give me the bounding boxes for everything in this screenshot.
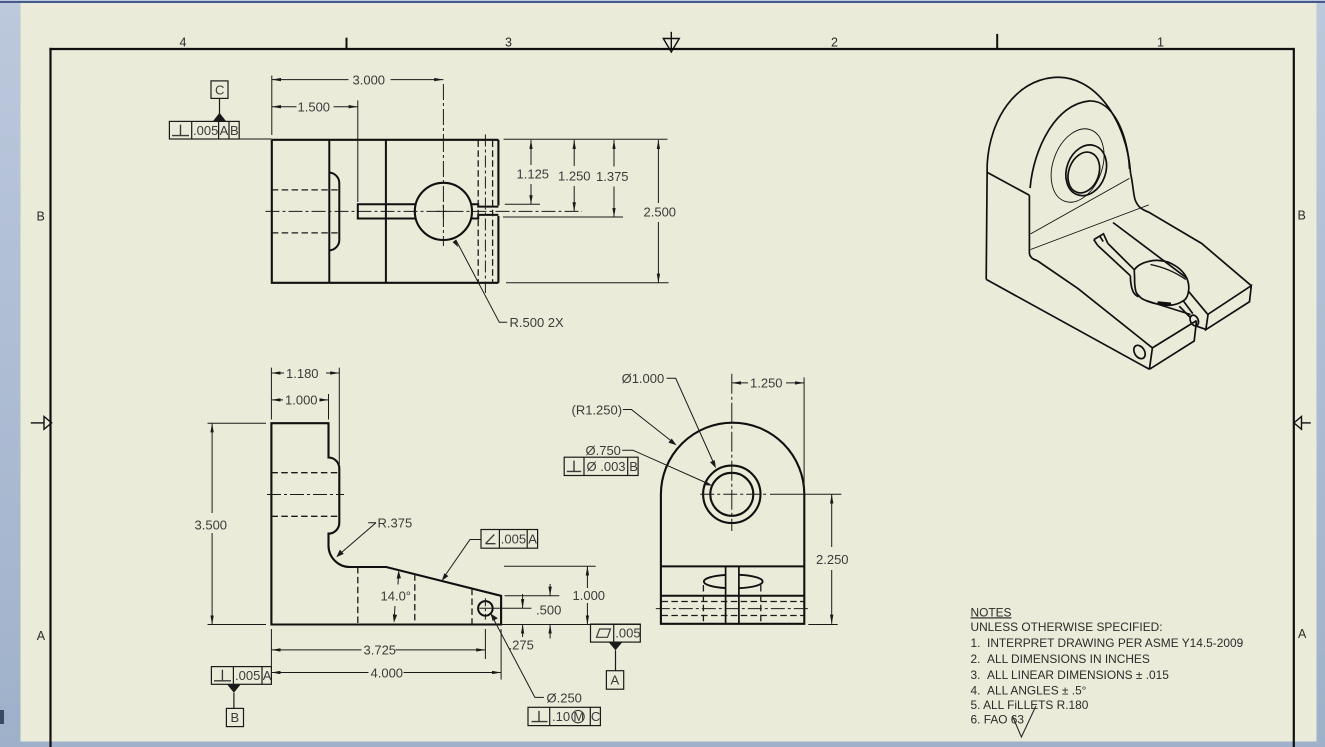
- svg-text:2.500: 2.500: [644, 205, 677, 220]
- zone tick between 2 and 1: [996, 34, 998, 48]
- leader dia 1.000: [667, 378, 716, 468]
- svg-text:B: B: [230, 123, 239, 138]
- svg-text:3.500: 3.500: [195, 518, 228, 533]
- svg-text:A: A: [611, 673, 620, 688]
- svg-text:B: B: [629, 459, 638, 474]
- left edge small dark mark: [0, 710, 4, 724]
- svg-text:3.725: 3.725: [364, 643, 397, 658]
- iso small hole ellipse: [1131, 343, 1147, 361]
- iso bore inner ellipse: [1063, 148, 1106, 198]
- center lines: [700, 493, 766, 495]
- top center fold mark: [663, 32, 679, 52]
- pocket circle center cross: [437, 205, 451, 219]
- svg-text:Ø1.000: Ø1.000: [622, 371, 665, 386]
- iso front boss arc: [1030, 101, 1129, 188]
- svg-text:Ø .003: Ø .003: [587, 459, 626, 474]
- svg-text:3. ALL LINEAR DIMENSIONS ± .0: 3. ALL LINEAR DIMENSIONS ± .015: [971, 668, 1170, 682]
- front view hidden slot walls: [358, 567, 472, 624]
- dimension 1.125: [530, 140, 532, 204]
- svg-text:1.180: 1.180: [286, 366, 319, 381]
- leader dia .250: [491, 614, 544, 698]
- iso pocket blob: [1134, 260, 1189, 305]
- bore circle .750: [710, 473, 753, 516]
- dimension 3.725: [271, 629, 485, 667]
- dimension 1.250: [732, 377, 804, 489]
- small hole center line: [656, 608, 809, 610]
- svg-text:2.250: 2.250: [816, 552, 849, 567]
- svg-text:.005: .005: [193, 123, 218, 138]
- svg-text:R.500 2X: R.500 2X: [510, 315, 565, 330]
- FCF perpendicularity .10 M C: [528, 707, 600, 725]
- FCF flatness .005: [591, 624, 641, 642]
- dimension 1.000 (right): [586, 566, 588, 624]
- svg-text:.10: .10: [552, 709, 570, 724]
- iso front prong right face: [1149, 321, 1196, 370]
- datum A flag: [609, 642, 623, 650]
- FCF perpendicularity dia .003 B: [564, 457, 638, 475]
- svg-text:A: A: [528, 532, 537, 547]
- top view pocket vertical center line: [442, 84, 444, 246]
- top view horizontal center line: [266, 210, 583, 212]
- top view upright divider line: [328, 140, 330, 283]
- top view slot left section: [358, 204, 416, 218]
- front view hole center line: [267, 494, 344, 496]
- iso tangent line upper: [1031, 178, 1130, 234]
- top view pocket circle R.500: [415, 183, 472, 240]
- angularity leader: [442, 540, 481, 581]
- dimension 1.500: [272, 100, 358, 202]
- svg-text:4. ALL ANGLES ± .5°: 4. ALL ANGLES ± .5°: [971, 683, 1087, 697]
- iso pocket floor edge: [1158, 303, 1172, 304]
- iso prong gap lines: [1179, 301, 1193, 318]
- leader R.375: [336, 523, 376, 557]
- dimension 1.250: [573, 140, 575, 211]
- top view outline: [272, 140, 499, 283]
- leader dia .750: [622, 450, 712, 485]
- iso top-left slope edge: [987, 172, 1029, 195]
- iso notch to prong corner edge: [1196, 326, 1206, 329]
- iso pocket inner far-wall edge: [1151, 265, 1186, 280]
- boss circle 1.000: [703, 466, 760, 523]
- dimension 2.250: [770, 494, 841, 624]
- right side extension lines: [501, 566, 641, 624]
- left center arrow mark: [31, 417, 52, 430]
- side view outline: [661, 423, 804, 624]
- dimension 1.180: [271, 368, 339, 464]
- leader R.500 2X: [453, 240, 508, 322]
- svg-text:3: 3: [505, 36, 512, 50]
- hidden small hole lines: [662, 602, 804, 616]
- svg-text:M: M: [573, 709, 584, 724]
- svg-text:A: A: [220, 123, 229, 138]
- svg-text:4: 4: [180, 36, 187, 50]
- svg-text:1. INTERPRET DRAWING PER ASME: 1. INTERPRET DRAWING PER ASME Y14.5-2009: [971, 636, 1244, 650]
- iso back prong right face: [1206, 286, 1252, 330]
- iso upright front-left edge: [1029, 195, 1037, 260]
- angle dimension 14.0: [393, 570, 401, 623]
- svg-text:Ø.750: Ø.750: [586, 443, 621, 458]
- svg-text:C: C: [591, 709, 600, 724]
- svg-text:4.000: 4.000: [371, 665, 404, 680]
- svg-text:R.375: R.375: [378, 516, 413, 531]
- iso back arch arc: [987, 77, 1130, 173]
- surface finish symbol: [1013, 706, 1036, 737]
- small hole: [478, 601, 493, 616]
- top view boss profile with fillets: [329, 173, 339, 251]
- iso front prong slot-side edge: [1146, 301, 1191, 315]
- svg-text:3.000: 3.000: [353, 72, 386, 87]
- iso slot-to-prong edge: [1188, 291, 1208, 314]
- dimension 1.375: [613, 140, 615, 217]
- dimension 2.500: [657, 140, 659, 283]
- dimension 1.000 (upright): [271, 394, 328, 420]
- dimension 3.500: [208, 423, 267, 624]
- svg-text:Ø.250: Ø.250: [547, 690, 582, 705]
- svg-text:1.500: 1.500: [298, 100, 331, 115]
- svg-text:1.000: 1.000: [573, 588, 606, 603]
- right center arrow mark: [1294, 417, 1311, 430]
- dimension .275: [522, 594, 524, 637]
- svg-text:.005: .005: [615, 626, 640, 641]
- svg-text:NOTES: NOTES: [971, 605, 1012, 619]
- svg-text:1.000: 1.000: [285, 393, 318, 408]
- svg-text:.275: .275: [509, 638, 534, 653]
- svg-text:B: B: [231, 710, 240, 725]
- iso left edge: [986, 164, 987, 280]
- iso boss face thin ellipse: [1042, 121, 1114, 209]
- top view small hole center line: [484, 135, 486, 294]
- svg-text:1.250: 1.250: [558, 169, 591, 184]
- iso pocket outer wall lower arc: [1130, 276, 1138, 297]
- svg-text:(R1.250): (R1.250): [572, 402, 623, 417]
- svg-text:A: A: [1298, 627, 1307, 641]
- iso slot right wall top edge: [1113, 223, 1187, 278]
- iso slot right-end notch: [1188, 314, 1200, 327]
- svg-text:5. ALL FiLLETS R.180: 5. ALL FiLLETS R.180: [971, 698, 1089, 712]
- svg-text:.500: .500: [536, 603, 561, 618]
- svg-text:1.125: 1.125: [517, 167, 550, 182]
- zone tick between 4 and 3: [346, 38, 348, 49]
- front view outline: [271, 423, 501, 624]
- iso slot left wall band: [1098, 243, 1135, 275]
- perpendicularity symbol: [172, 125, 189, 136]
- iso slot closed end: [1094, 234, 1108, 245]
- datum C flag: [211, 81, 228, 115]
- front view hidden hole lines: [271, 473, 339, 517]
- leader (R1.250): [623, 410, 677, 446]
- top view hidden hole lines: [272, 190, 340, 233]
- iso tangent line lower: [1031, 205, 1149, 250]
- hidden pocket walls: [703, 585, 760, 624]
- iso bore outer ellipse: [1059, 139, 1113, 201]
- pocket ellipse: [704, 575, 763, 588]
- datum B flag: [227, 684, 241, 693]
- dimension 4.000: [271, 629, 501, 680]
- svg-text:A: A: [37, 629, 46, 643]
- iso base front-top edge: [1037, 261, 1152, 348]
- FCF attachment line to view: [239, 138, 272, 140]
- iso base bottom edge: [986, 279, 1149, 369]
- svg-text:1.375: 1.375: [596, 169, 629, 184]
- svg-text:UNLESS OTHERWISE SPECIFIED:: UNLESS OTHERWISE SPECIFIED:: [971, 620, 1163, 634]
- top view slot right section with jog: [471, 204, 498, 218]
- dimension 3.000: [272, 76, 444, 135]
- top view angled-face start edge: [385, 140, 387, 283]
- top dark blue line: [0, 1, 1325, 3]
- top view small hole hidden lines: [478, 141, 492, 283]
- svg-text:C: C: [215, 83, 224, 98]
- base top edge: [661, 565, 804, 567]
- right end step edge: [661, 595, 804, 597]
- svg-text:2: 2: [831, 35, 838, 49]
- svg-text:.005: .005: [235, 668, 260, 683]
- svg-text:14.0°: 14.0°: [381, 589, 412, 604]
- FCF perpendicularity .005 A (bottom left): [211, 667, 271, 685]
- svg-text:1: 1: [1157, 35, 1164, 49]
- svg-text:.005: .005: [501, 532, 526, 547]
- right side extension lines: [503, 139, 669, 283]
- svg-text:B: B: [1298, 209, 1306, 223]
- slot walls: [725, 566, 727, 623]
- svg-text:B: B: [37, 210, 45, 224]
- small hole center lines: [484, 598, 486, 619]
- svg-text:2. ALL DIMENSIONS IN INCHES: 2. ALL DIMENSIONS IN INCHES: [971, 652, 1150, 666]
- FCF perpendicularity .005 A B (top): [169, 121, 239, 139]
- dimension .500: [549, 584, 551, 639]
- iso upright right edge: [1131, 174, 1252, 286]
- svg-text:A: A: [263, 668, 272, 683]
- svg-text:1.250: 1.250: [750, 376, 783, 391]
- FCF angularity .005 A: [481, 530, 538, 549]
